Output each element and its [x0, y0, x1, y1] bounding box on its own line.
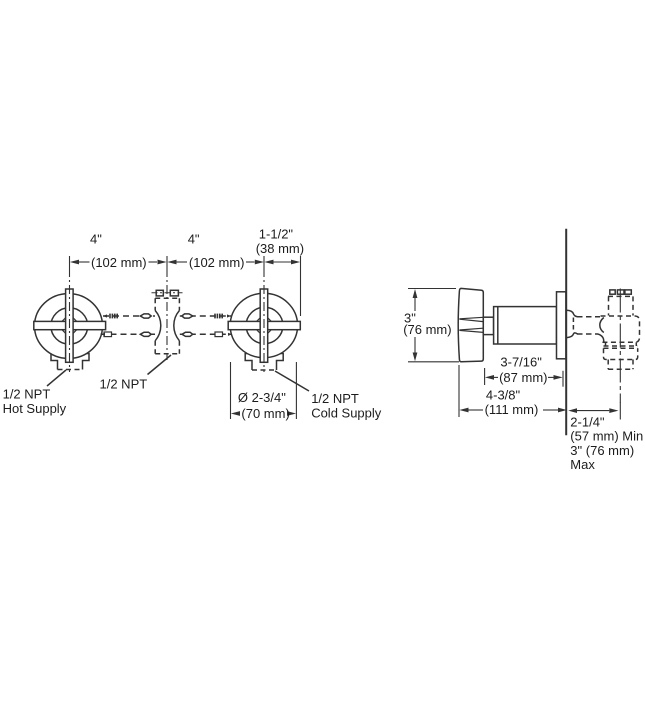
- dimension 2-1/4 min/max: [568, 403, 643, 473]
- diameter dimension 2-3/4: [231, 362, 297, 421]
- hot valve cross handle: [34, 289, 106, 362]
- svg-text:4": 4": [90, 232, 102, 247]
- svg-text:4": 4": [188, 232, 200, 247]
- cold valve cross handle: [228, 289, 300, 362]
- dimension 3-7/16: [485, 355, 563, 387]
- svg-text:(76 mm): (76 mm): [403, 322, 451, 337]
- cold valve hub corner chamfers: [257, 318, 272, 334]
- behind-wall lower curve: [598, 334, 604, 343]
- label hot supply: [3, 370, 67, 416]
- svg-text:(70 mm): (70 mm): [241, 406, 289, 421]
- svg-text:Cold Supply: Cold Supply: [311, 406, 382, 421]
- hot valve base: [51, 354, 89, 370]
- svg-text:Max: Max: [570, 457, 595, 472]
- label cold supply: [275, 371, 382, 421]
- behind-wall top nut: [608, 290, 633, 297]
- handle side profile: [458, 288, 483, 361]
- lower supply pipe hot side: [101, 332, 156, 337]
- upper supply pipe hot side: [103, 314, 155, 319]
- svg-text:(102 mm): (102 mm): [91, 255, 147, 270]
- hot valve body circles: [35, 294, 103, 359]
- dimension 4" hot-to-center: [70, 232, 167, 271]
- behind-wall socket arc: [600, 318, 604, 333]
- behind-wall centerline: [619, 289, 621, 404]
- wall line: [565, 229, 567, 435]
- label center npt: [100, 355, 172, 391]
- escutcheon flange: [557, 292, 567, 359]
- upper supply pipe cold side: [180, 314, 231, 319]
- dimension 4-3/8: [459, 365, 567, 417]
- svg-text:3-7/16": 3-7/16": [500, 355, 542, 370]
- valve body cylinder: [494, 307, 557, 344]
- dimension 4" center-to-cold: [167, 232, 264, 271]
- behind-wall valve body: [601, 316, 640, 369]
- dimension 1-1/2": [256, 227, 304, 317]
- svg-text:(102 mm): (102 mm): [189, 255, 245, 270]
- svg-text:(38 mm): (38 mm): [256, 241, 304, 256]
- valve stem: [483, 317, 493, 334]
- spool waist arcs: [155, 311, 161, 341]
- hot valve centerline: [69, 268, 71, 372]
- svg-text:1/2 NPT: 1/2 NPT: [311, 391, 359, 406]
- svg-text:1/2 NPT: 1/2 NPT: [100, 376, 148, 391]
- svg-text:1/2 NPT: 1/2 NPT: [3, 387, 51, 402]
- behind-wall union: [567, 310, 578, 337]
- spool top nuts: [152, 290, 183, 296]
- svg-text:(87 mm): (87 mm): [499, 370, 547, 385]
- cold valve base: [245, 354, 283, 371]
- svg-text:Hot Supply: Hot Supply: [3, 401, 67, 416]
- svg-text:(57 mm) Min: (57 mm) Min: [570, 429, 643, 444]
- dimension 3" vertical: [403, 289, 459, 362]
- svg-text:Ø 2-3/4": Ø 2-3/4": [238, 390, 286, 405]
- svg-text:1-1/2": 1-1/2": [259, 227, 294, 242]
- svg-text:(111 mm): (111 mm): [485, 402, 539, 417]
- cold valve body circles: [230, 293, 297, 357]
- svg-text:4-3/8": 4-3/8": [486, 388, 521, 403]
- center supply spool: [155, 298, 179, 354]
- spool centerline: [166, 268, 168, 360]
- behind-wall pipe: [577, 317, 600, 334]
- svg-text:2-1/4": 2-1/4": [570, 415, 605, 430]
- svg-text:3" (76 mm): 3" (76 mm): [570, 443, 634, 458]
- hot valve hub corner chamfers: [62, 318, 77, 334]
- lower supply pipe cold side: [180, 332, 232, 337]
- cold valve centerline: [263, 268, 265, 372]
- behind-wall riser: [609, 296, 634, 315]
